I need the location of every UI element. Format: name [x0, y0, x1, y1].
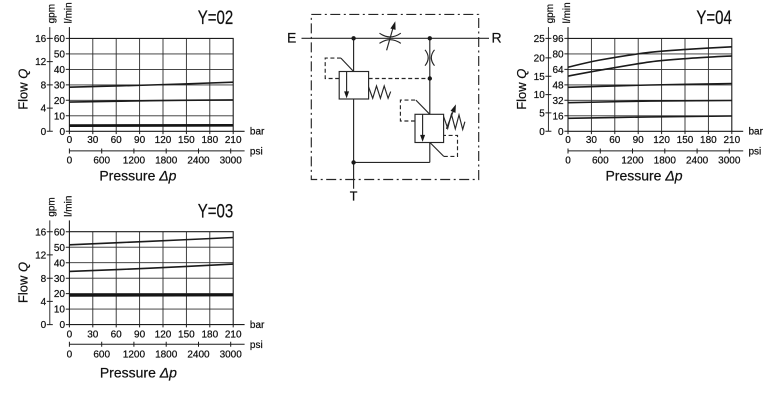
svg-text:210: 210: [225, 329, 242, 340]
svg-text:psi: psi: [250, 340, 263, 351]
svg-text:1800: 1800: [155, 155, 178, 166]
svg-text:psi: psi: [749, 147, 762, 158]
svg-text:20: 20: [54, 96, 66, 107]
svg-text:96: 96: [552, 34, 564, 45]
svg-text:50: 50: [54, 243, 66, 254]
svg-text:40: 40: [54, 258, 66, 269]
svg-text:2400: 2400: [686, 155, 709, 166]
svg-text:l/min: l/min: [63, 196, 74, 217]
svg-text:0: 0: [67, 135, 73, 146]
svg-text:40: 40: [54, 65, 66, 76]
svg-text:0: 0: [565, 155, 571, 166]
svg-text:60: 60: [111, 329, 123, 340]
svg-text:Flow Q: Flow Q: [15, 69, 30, 110]
svg-text:0: 0: [539, 127, 545, 138]
svg-text:16: 16: [35, 34, 47, 45]
svg-text:30: 30: [54, 81, 66, 92]
svg-text:Pressure Δp: Pressure Δp: [605, 168, 682, 184]
svg-text:25: 25: [534, 34, 546, 45]
svg-text:5: 5: [539, 109, 545, 120]
svg-text:30: 30: [87, 329, 99, 340]
svg-text:64: 64: [552, 65, 564, 76]
svg-text:8: 8: [41, 81, 47, 92]
svg-text:Flow Q: Flow Q: [15, 262, 30, 303]
svg-text:gpm: gpm: [46, 4, 57, 23]
svg-text:180: 180: [201, 135, 218, 146]
svg-text:Y=03: Y=03: [198, 200, 233, 222]
svg-text:30: 30: [54, 274, 66, 285]
svg-text:80: 80: [552, 50, 564, 61]
svg-text:60: 60: [54, 34, 66, 45]
svg-text:0: 0: [41, 320, 47, 331]
svg-text:60: 60: [609, 135, 621, 146]
svg-text:l/min: l/min: [562, 2, 573, 23]
svg-text:150: 150: [178, 329, 195, 340]
svg-text:Y=04: Y=04: [696, 6, 732, 28]
svg-text:120: 120: [653, 135, 670, 146]
svg-text:Pressure Δp: Pressure Δp: [99, 168, 176, 184]
svg-text:4: 4: [41, 297, 47, 308]
svg-text:bar: bar: [250, 320, 265, 331]
svg-text:E: E: [287, 30, 296, 46]
svg-text:180: 180: [201, 329, 218, 340]
svg-text:0: 0: [41, 127, 47, 138]
svg-text:bar: bar: [250, 127, 265, 138]
svg-text:0: 0: [67, 349, 73, 360]
svg-text:210: 210: [225, 135, 242, 146]
svg-text:30: 30: [87, 135, 99, 146]
svg-text:gpm: gpm: [545, 4, 556, 23]
svg-text:150: 150: [178, 135, 195, 146]
svg-text:gpm: gpm: [46, 197, 57, 216]
svg-text:R: R: [491, 30, 501, 46]
svg-text:3000: 3000: [718, 155, 741, 166]
svg-text:90: 90: [134, 329, 146, 340]
svg-text:l/min: l/min: [63, 2, 74, 23]
svg-text:T: T: [350, 190, 358, 204]
svg-text:90: 90: [134, 135, 146, 146]
svg-text:600: 600: [93, 349, 110, 360]
svg-text:180: 180: [700, 135, 717, 146]
svg-text:16: 16: [552, 111, 564, 122]
svg-text:0: 0: [67, 329, 73, 340]
svg-text:4: 4: [41, 104, 47, 115]
svg-text:150: 150: [677, 135, 694, 146]
svg-text:60: 60: [111, 135, 123, 146]
svg-text:0: 0: [67, 155, 73, 166]
svg-text:Flow Q: Flow Q: [514, 69, 529, 110]
svg-text:3000: 3000: [220, 349, 243, 360]
svg-text:50: 50: [54, 50, 66, 61]
svg-text:20: 20: [534, 54, 546, 65]
svg-text:30: 30: [586, 135, 598, 146]
svg-text:0: 0: [558, 127, 564, 138]
svg-text:16: 16: [35, 227, 47, 238]
svg-text:1200: 1200: [123, 155, 146, 166]
svg-text:bar: bar: [749, 127, 764, 138]
svg-text:48: 48: [552, 81, 564, 92]
svg-text:210: 210: [723, 135, 740, 146]
svg-text:1200: 1200: [123, 349, 146, 360]
svg-text:60: 60: [54, 227, 66, 238]
svg-text:0: 0: [59, 320, 65, 331]
svg-text:12: 12: [35, 57, 47, 68]
svg-text:10: 10: [54, 111, 66, 122]
svg-text:8: 8: [41, 274, 47, 285]
svg-text:psi: psi: [250, 147, 263, 158]
svg-text:600: 600: [592, 155, 609, 166]
svg-text:1800: 1800: [155, 349, 178, 360]
svg-text:20: 20: [54, 289, 66, 300]
svg-text:1200: 1200: [621, 155, 644, 166]
svg-text:120: 120: [155, 135, 172, 146]
svg-text:2400: 2400: [187, 349, 210, 360]
svg-text:2400: 2400: [187, 155, 210, 166]
svg-text:Pressure Δp: Pressure Δp: [100, 364, 177, 380]
svg-text:120: 120: [155, 329, 172, 340]
svg-text:10: 10: [54, 305, 66, 316]
svg-text:10: 10: [534, 90, 546, 101]
svg-text:600: 600: [93, 155, 110, 166]
svg-text:15: 15: [534, 72, 546, 83]
svg-text:3000: 3000: [220, 155, 243, 166]
svg-text:Y=02: Y=02: [198, 6, 233, 28]
svg-text:1800: 1800: [654, 155, 677, 166]
svg-text:0: 0: [59, 127, 65, 138]
svg-text:90: 90: [633, 135, 645, 146]
svg-text:32: 32: [552, 96, 564, 107]
svg-text:0: 0: [565, 135, 571, 146]
svg-text:12: 12: [35, 251, 47, 262]
